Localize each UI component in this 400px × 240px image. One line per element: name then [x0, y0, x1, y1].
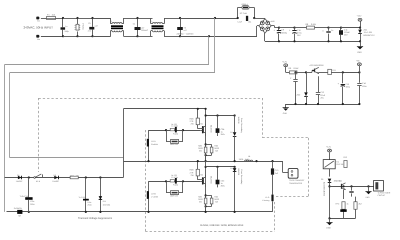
svg-text:To PCB TIMER: To PCB TIMER — [378, 192, 391, 195]
svg-text:5W: 5W — [215, 201, 218, 204]
svg-text:From Secondary: From Secondary — [240, 170, 243, 185]
svg-text:1N4007: 1N4007 — [16, 180, 23, 183]
svg-text:1u: 1u — [221, 182, 223, 185]
svg-text:GND: GND — [283, 112, 288, 115]
svg-text:0.5W: 0.5W — [294, 67, 299, 70]
svg-text:Brn: Brn — [37, 20, 40, 23]
svg-text:R5B: R5B — [190, 118, 195, 121]
svg-text:1W: 1W — [76, 174, 79, 177]
svg-text:L8-B: L8-B — [151, 193, 156, 196]
svg-text:u47: u47 — [95, 25, 98, 28]
svg-text:R2N: R2N — [214, 144, 218, 147]
svg-text:X2: X2 — [184, 26, 186, 29]
svg-text:100n: 100n — [362, 85, 366, 88]
svg-text:From Secondary: From Secondary — [240, 118, 243, 133]
svg-text:BUZ900: BUZ900 — [209, 125, 212, 133]
svg-text:D12: D12 — [103, 200, 106, 203]
svg-text:GND: GND — [357, 51, 362, 54]
svg-text:SUSAN, FINESSE 150W, BONSAI 60: SUSAN, FINESSE 150W, BONSAI 60SE — [200, 224, 244, 227]
svg-text:100R 1W: 100R 1W — [170, 194, 178, 197]
svg-text:C1 470n: C1 470n — [171, 125, 178, 128]
svg-text:TO-3S TRANSIST: TO-3S TRANSIST — [289, 179, 305, 182]
svg-text:1N4748A: 1N4748A — [103, 203, 111, 206]
svg-text:250v: 250v — [221, 133, 225, 136]
svg-text:240VAC, 50Hz INPUT: 240VAC, 50Hz INPUT — [24, 25, 54, 29]
svg-text:C4: C4 — [133, 23, 135, 26]
svg-text:R2N: R2N — [214, 195, 218, 198]
svg-text:BC548/MJE350: BC548/MJE350 — [322, 182, 325, 197]
svg-text:2n2: 2n2 — [275, 172, 278, 175]
svg-text:D3: D3 — [230, 167, 232, 170]
svg-text:Blu: Blu — [37, 38, 40, 41]
svg-text:GND: GND — [326, 226, 331, 229]
svg-text:GND: GND — [366, 196, 371, 199]
svg-text:u47: u47 — [184, 29, 187, 32]
svg-text:5W: 5W — [199, 201, 202, 204]
svg-text:BZX85C12V: BZX85C12V — [364, 34, 376, 37]
svg-text:5W: 5W — [199, 150, 202, 153]
svg-text:0.5W: 0.5W — [311, 23, 316, 26]
svg-text:120uF: 120uF — [344, 31, 350, 34]
svg-text:1305 - 1mH: 1305 - 1mH — [239, 158, 250, 161]
svg-text:5W: 5W — [215, 150, 218, 153]
svg-text:1u: 1u — [221, 131, 223, 134]
svg-text:12v 1.3W: 12v 1.3W — [364, 31, 373, 34]
svg-text:100R 1W: 100R 1W — [170, 143, 178, 146]
svg-text:0R22: 0R22 — [214, 147, 219, 150]
svg-text:250A: 250A — [30, 203, 35, 206]
svg-text:2W: 2W — [191, 123, 194, 126]
svg-text:0R22: 0R22 — [214, 198, 219, 201]
svg-text:TVS+C150: TVS+C150 — [20, 195, 29, 198]
svg-text:D6: D6 — [54, 174, 56, 177]
svg-text:2k2: 2k2 — [359, 202, 362, 205]
svg-text:C1 470n: C1 470n — [171, 176, 178, 179]
svg-text:1n: 1n — [65, 25, 67, 28]
svg-text:Pu(m): Pu(m) — [173, 184, 179, 187]
svg-text:250VAC: 250VAC — [141, 29, 149, 32]
svg-text:1N5408: 1N5408 — [237, 117, 240, 125]
svg-text:1N5408: 1N5408 — [237, 168, 240, 176]
svg-text:R5B: R5B — [190, 169, 195, 172]
svg-text:2' white: 2' white — [151, 195, 159, 198]
svg-text:u47: u47 — [141, 26, 144, 29]
svg-text:0R22: 0R22 — [198, 198, 203, 201]
svg-text:130v: 130v — [30, 200, 34, 203]
svg-text:27R: 27R — [190, 120, 194, 123]
svg-text:C10: C10 — [275, 169, 278, 172]
svg-text:V250LA: V250LA — [241, 3, 248, 6]
svg-text:CIRCUIT: CIRCUIT — [378, 194, 387, 197]
svg-text:Pu(m): Pu(m) — [173, 132, 179, 135]
svg-text:474: 474 — [88, 29, 91, 32]
svg-text:275VAC: 275VAC — [81, 23, 84, 31]
svg-text:L8-A: L8-A — [151, 140, 156, 143]
svg-text:BUZ900: BUZ900 — [209, 176, 212, 184]
svg-text:1k: 1k — [347, 202, 349, 205]
svg-text:S+DMOV: S+DMOV — [14, 207, 23, 210]
svg-text:240VAC ~ 140VDC: 240VAC ~ 140VDC — [177, 32, 195, 35]
svg-text:Transient Voltage Suppressors: Transient Voltage Suppressors — [78, 217, 113, 220]
svg-text:B white: B white — [151, 143, 158, 146]
svg-text:TRANSDUCER: TRANSDUCER — [289, 182, 303, 185]
svg-text:R10: R10 — [70, 174, 73, 177]
svg-text:1n: 1n — [331, 29, 333, 32]
svg-text:K tuning: K tuning — [262, 199, 269, 202]
svg-text:C2C: C2C — [221, 179, 225, 182]
svg-text:2W: 2W — [191, 174, 194, 177]
svg-text:1N4007: 1N4007 — [52, 180, 59, 183]
svg-text:27R: 27R — [190, 171, 194, 174]
svg-text:D5: D5 — [17, 174, 19, 177]
svg-text:C5: C5 — [88, 22, 90, 25]
svg-text:n.4uF: n.4uF — [237, 20, 243, 23]
svg-text:K2 7uH: K2 7uH — [240, 12, 247, 15]
svg-text:K1 B: K1 B — [36, 180, 41, 183]
svg-text:AC128/MJE350: AC128/MJE350 — [310, 64, 325, 67]
svg-text:RLY 5A: RLY 5A — [337, 163, 344, 166]
svg-text:1000u: 1000u — [282, 31, 288, 34]
svg-text:0R22: 0R22 — [198, 147, 203, 150]
svg-text:25v: 25v — [321, 96, 324, 99]
svg-text:240p: 240p — [65, 30, 69, 33]
svg-text:+AND: +AND — [270, 20, 276, 23]
svg-text:47uF: 47uF — [321, 94, 326, 97]
svg-text:470u: 470u — [297, 32, 301, 35]
svg-text:250v: 250v — [221, 185, 225, 188]
svg-text:Tr+C150: Tr+C150 — [79, 196, 86, 199]
svg-text:R+C: R+C — [336, 202, 340, 205]
svg-text:D2: D2 — [230, 131, 232, 134]
svg-text:100u: 100u — [346, 86, 350, 89]
svg-text:L1-D: L1-D — [265, 196, 270, 199]
